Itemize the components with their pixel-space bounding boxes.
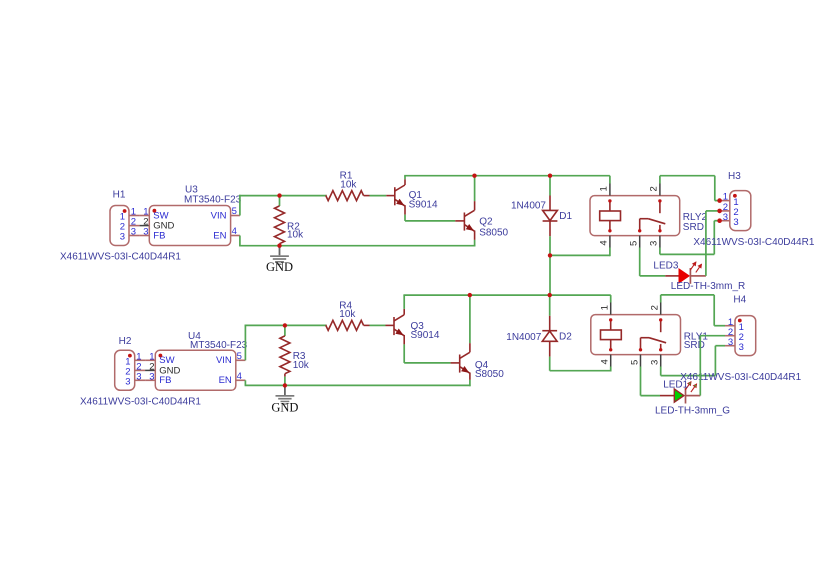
svg-text:S9014: S9014	[409, 200, 438, 211]
svg-text:3: 3	[733, 217, 738, 228]
svg-text:X4611WVS-03I-C40D44R1: X4611WVS-03I-C40D44R1	[60, 252, 181, 263]
svg-text:VIN: VIN	[216, 355, 232, 366]
svg-text:10k: 10k	[339, 309, 356, 320]
svg-text:3: 3	[136, 371, 141, 382]
svg-text:4: 4	[600, 359, 611, 364]
svg-text:X4611WVS-03I-C40D44R1: X4611WVS-03I-C40D44R1	[80, 396, 201, 407]
svg-text:FB: FB	[153, 230, 165, 241]
svg-text:H1: H1	[113, 190, 126, 201]
svg-text:SRD: SRD	[684, 340, 705, 351]
svg-text:VIN: VIN	[211, 210, 227, 221]
svg-text:3: 3	[723, 212, 728, 223]
svg-text:3: 3	[131, 227, 136, 238]
svg-text:EN: EN	[219, 375, 232, 386]
svg-text:1N4007: 1N4007	[511, 200, 546, 211]
svg-text:S9014: S9014	[411, 330, 440, 341]
svg-text:X4611WVS-03I-C40D44R1: X4611WVS-03I-C40D44R1	[693, 237, 814, 248]
svg-text:5: 5	[237, 351, 242, 362]
svg-text:D2: D2	[559, 332, 572, 343]
svg-text:1: 1	[599, 186, 610, 191]
svg-text:3: 3	[149, 371, 154, 382]
svg-text:GND: GND	[266, 260, 293, 274]
svg-text:2: 2	[650, 305, 661, 310]
svg-text:10k: 10k	[287, 229, 304, 240]
svg-text:S8050: S8050	[475, 369, 504, 380]
svg-text:3: 3	[650, 360, 661, 365]
svg-text:SRD: SRD	[683, 222, 704, 233]
svg-text:S8050: S8050	[479, 228, 508, 239]
svg-text:3: 3	[728, 337, 733, 348]
svg-text:LED1: LED1	[663, 380, 688, 391]
svg-text:LED3: LED3	[653, 261, 678, 272]
svg-text:10k: 10k	[340, 180, 357, 191]
svg-text:10k: 10k	[293, 360, 310, 371]
svg-text:Q2: Q2	[479, 217, 493, 228]
svg-text:LED-TH-3mm_G: LED-TH-3mm_G	[655, 406, 730, 417]
svg-text:X4611WVS-03I-C40D44R1: X4611WVS-03I-C40D44R1	[680, 372, 801, 383]
svg-text:3: 3	[120, 232, 125, 243]
svg-text:3: 3	[739, 342, 744, 353]
svg-text:MT3540-F23: MT3540-F23	[190, 340, 248, 351]
svg-text:4: 4	[232, 226, 237, 237]
svg-text:5: 5	[232, 206, 237, 217]
svg-text:H4: H4	[733, 294, 746, 305]
svg-text:MT3540-F23: MT3540-F23	[184, 195, 242, 206]
svg-text:H3: H3	[728, 171, 741, 182]
svg-text:4: 4	[237, 371, 242, 382]
svg-text:2: 2	[649, 186, 660, 191]
svg-text:D1: D1	[559, 211, 572, 222]
svg-text:3: 3	[143, 227, 148, 238]
svg-text:FB: FB	[159, 375, 171, 386]
svg-text:GND: GND	[271, 401, 298, 415]
svg-text:4: 4	[599, 240, 610, 245]
svg-text:3: 3	[125, 376, 130, 387]
svg-text:5: 5	[629, 360, 640, 365]
svg-text:1N4007: 1N4007	[506, 332, 541, 343]
svg-text:5: 5	[629, 241, 640, 246]
svg-text:3: 3	[649, 241, 660, 246]
svg-text:LED-TH-3mm_R: LED-TH-3mm_R	[671, 281, 745, 292]
svg-text:H2: H2	[119, 336, 132, 347]
svg-text:EN: EN	[213, 230, 226, 241]
svg-text:1: 1	[600, 305, 611, 310]
